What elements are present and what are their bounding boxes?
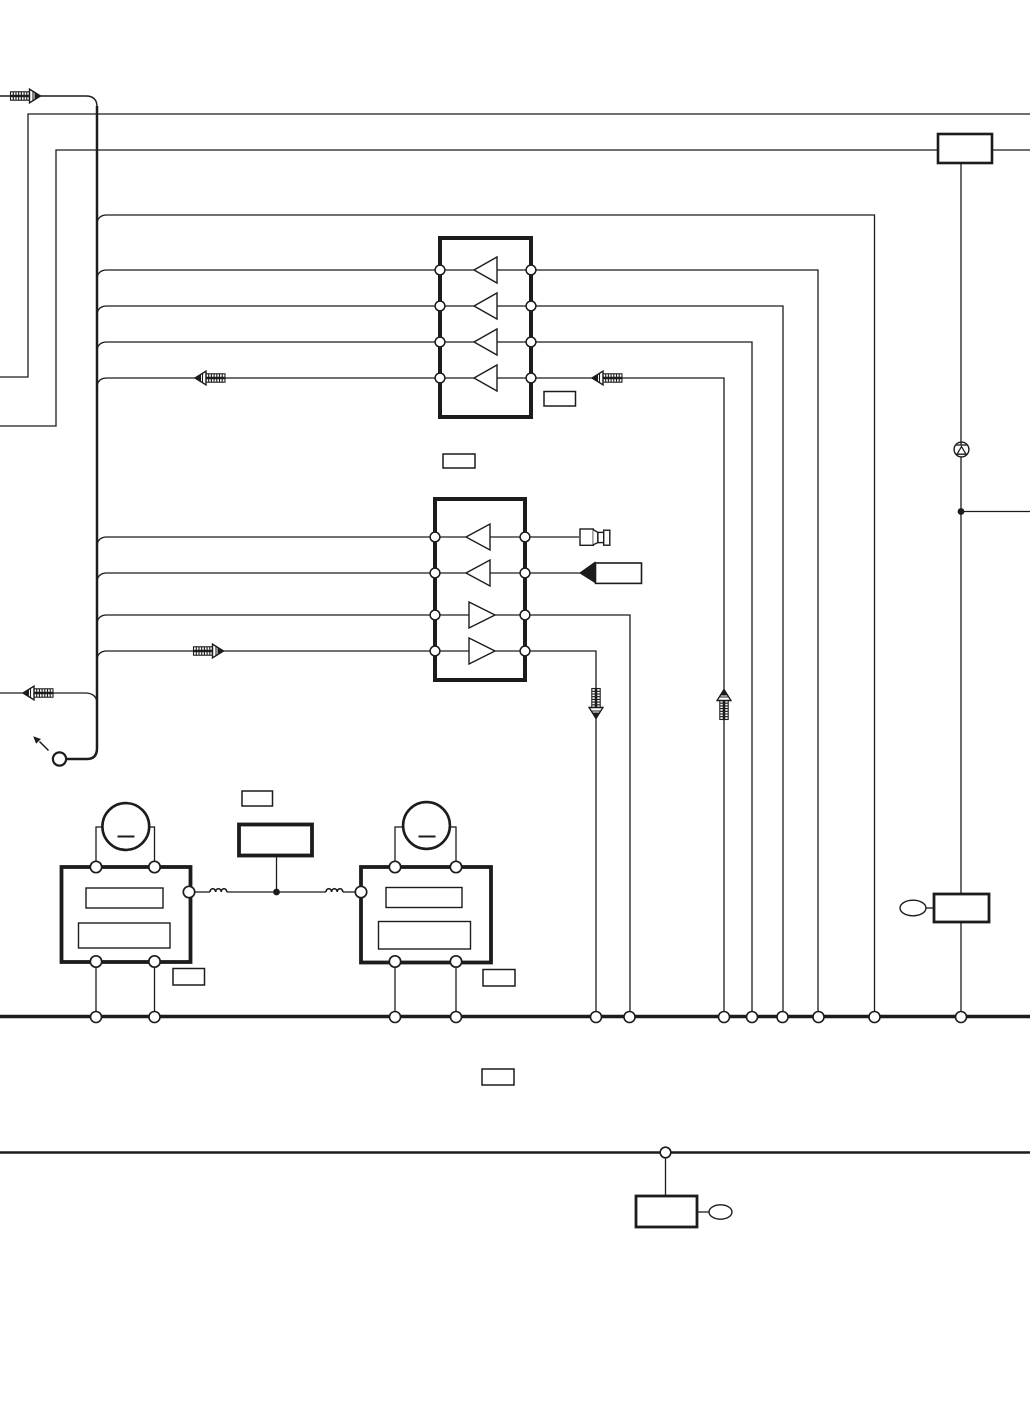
label box below bus1 [482, 1069, 514, 1085]
pin circles M1 [90, 861, 194, 967]
buffer U2-b [466, 560, 490, 586]
motor mount frame M1 [96, 827, 155, 867]
node coupling junction dot [273, 889, 280, 896]
buffer U2-c [469, 602, 495, 628]
pin circles U2 left [430, 532, 440, 656]
wire U1 pin3 net y=342 [107, 342, 752, 1017]
buffer U2-a [466, 524, 490, 550]
wire from J1 down through lamp to right box [960, 163, 962, 894]
mechanism block M2 [361, 867, 491, 963]
arrow right on U2 pin4 input [194, 644, 224, 658]
arrow left on U1 pin4 output [592, 371, 622, 385]
wire U2 pin2 net y=573 [107, 572, 580, 574]
arrow left on U1 pin4 input [195, 371, 225, 385]
motor M1 [102, 803, 149, 850]
ground bus bar 1 [0, 1015, 1030, 1018]
wire spine vertical bus riser [66, 106, 97, 759]
wire M2 bottom leads [395, 962, 456, 1017]
motor M2 [403, 802, 450, 849]
pin circles M2 [355, 861, 461, 967]
plunger ellipse of K1 [900, 900, 926, 916]
switch arm S1 [33, 736, 48, 750]
wire U2 pin3 net y=615 [107, 615, 630, 1017]
mechanism block M1 [62, 867, 191, 962]
wire bus2 tap [665, 1152, 667, 1196]
wire net-B : y=150 line from corner x=56 into box J1 [0, 150, 938, 426]
op-amp block U2 [435, 499, 525, 680]
flag label with solid arrow [579, 561, 642, 583]
label box near U1 output [544, 392, 576, 407]
solenoid box K2 bottom [636, 1196, 697, 1227]
arrow left on bottom feed [23, 686, 53, 700]
wire net-B2 : y=150 line from box J1 to right edge [992, 149, 1030, 151]
arrow down on x=596 vertical [589, 689, 603, 719]
lamp / thermal sensor symbol [954, 442, 969, 457]
motor mount frame M2 [395, 827, 456, 867]
node switch contact circle [53, 752, 66, 765]
wire net-A : top line y=114 from corner x=28 to right edge [0, 114, 1030, 377]
wire U1 pin1 net y=270 [107, 270, 818, 1017]
wire coupling left with spring [195, 891, 210, 893]
buffer U1-b [474, 293, 497, 319]
wire net-C : spine branch y=215 to corner x=874.5 down to bus [107, 215, 875, 1017]
wire U2 pin1 net y=537 [107, 536, 579, 538]
label box M2 [483, 970, 515, 987]
buffer U1-d [474, 365, 497, 391]
pin circles U1 right [526, 265, 536, 383]
wire M1 bottom leads [96, 962, 155, 1017]
wire K2 to ellipse [697, 1211, 709, 1213]
wire from junction dot to right edge y=511.5 [961, 511, 1030, 513]
ground bus bar 2 [0, 1151, 1030, 1154]
node junction dot [958, 508, 965, 515]
pin circles U1 left [435, 265, 445, 383]
label box M1 [173, 969, 205, 986]
plunger ellipse of K2 [709, 1205, 732, 1219]
op-amp block U1 [440, 238, 531, 417]
arrow right on top feed [11, 89, 41, 103]
wire U1 internal leads [440, 270, 531, 378]
buffer U1-c [474, 329, 497, 355]
wire bottom feed y=693 into spine [0, 693, 97, 704]
label box above belt block [242, 791, 273, 806]
node bus2 terminal [660, 1147, 671, 1158]
label box below U1 [443, 454, 475, 468]
pin circles U2 right [520, 532, 530, 656]
arrow up on x=724 vertical [717, 690, 731, 720]
RCA plug connector P1 [580, 529, 610, 545]
wire top feed y=96 into spine [0, 96, 97, 107]
wire ellipse to K1 [926, 907, 934, 909]
wire U1 pin4 net y=378 [107, 378, 724, 1017]
wire U2 internal leads [435, 537, 525, 651]
wire coupling right with spring [277, 891, 327, 893]
relay box K1 right side [934, 894, 989, 922]
wire U1 pin2 net y=306 [107, 306, 783, 1017]
buffer U1-a [474, 257, 497, 283]
node bus1 terminals [91, 1012, 967, 1023]
wire B1 stem [276, 856, 278, 893]
wire curve spine to net-C [97, 215, 107, 225]
buffer U2-d [469, 638, 495, 664]
wire U2 pin4 net y=651 [107, 651, 596, 1017]
belt block B1 [239, 825, 312, 856]
connector box J1 top right [938, 134, 992, 163]
